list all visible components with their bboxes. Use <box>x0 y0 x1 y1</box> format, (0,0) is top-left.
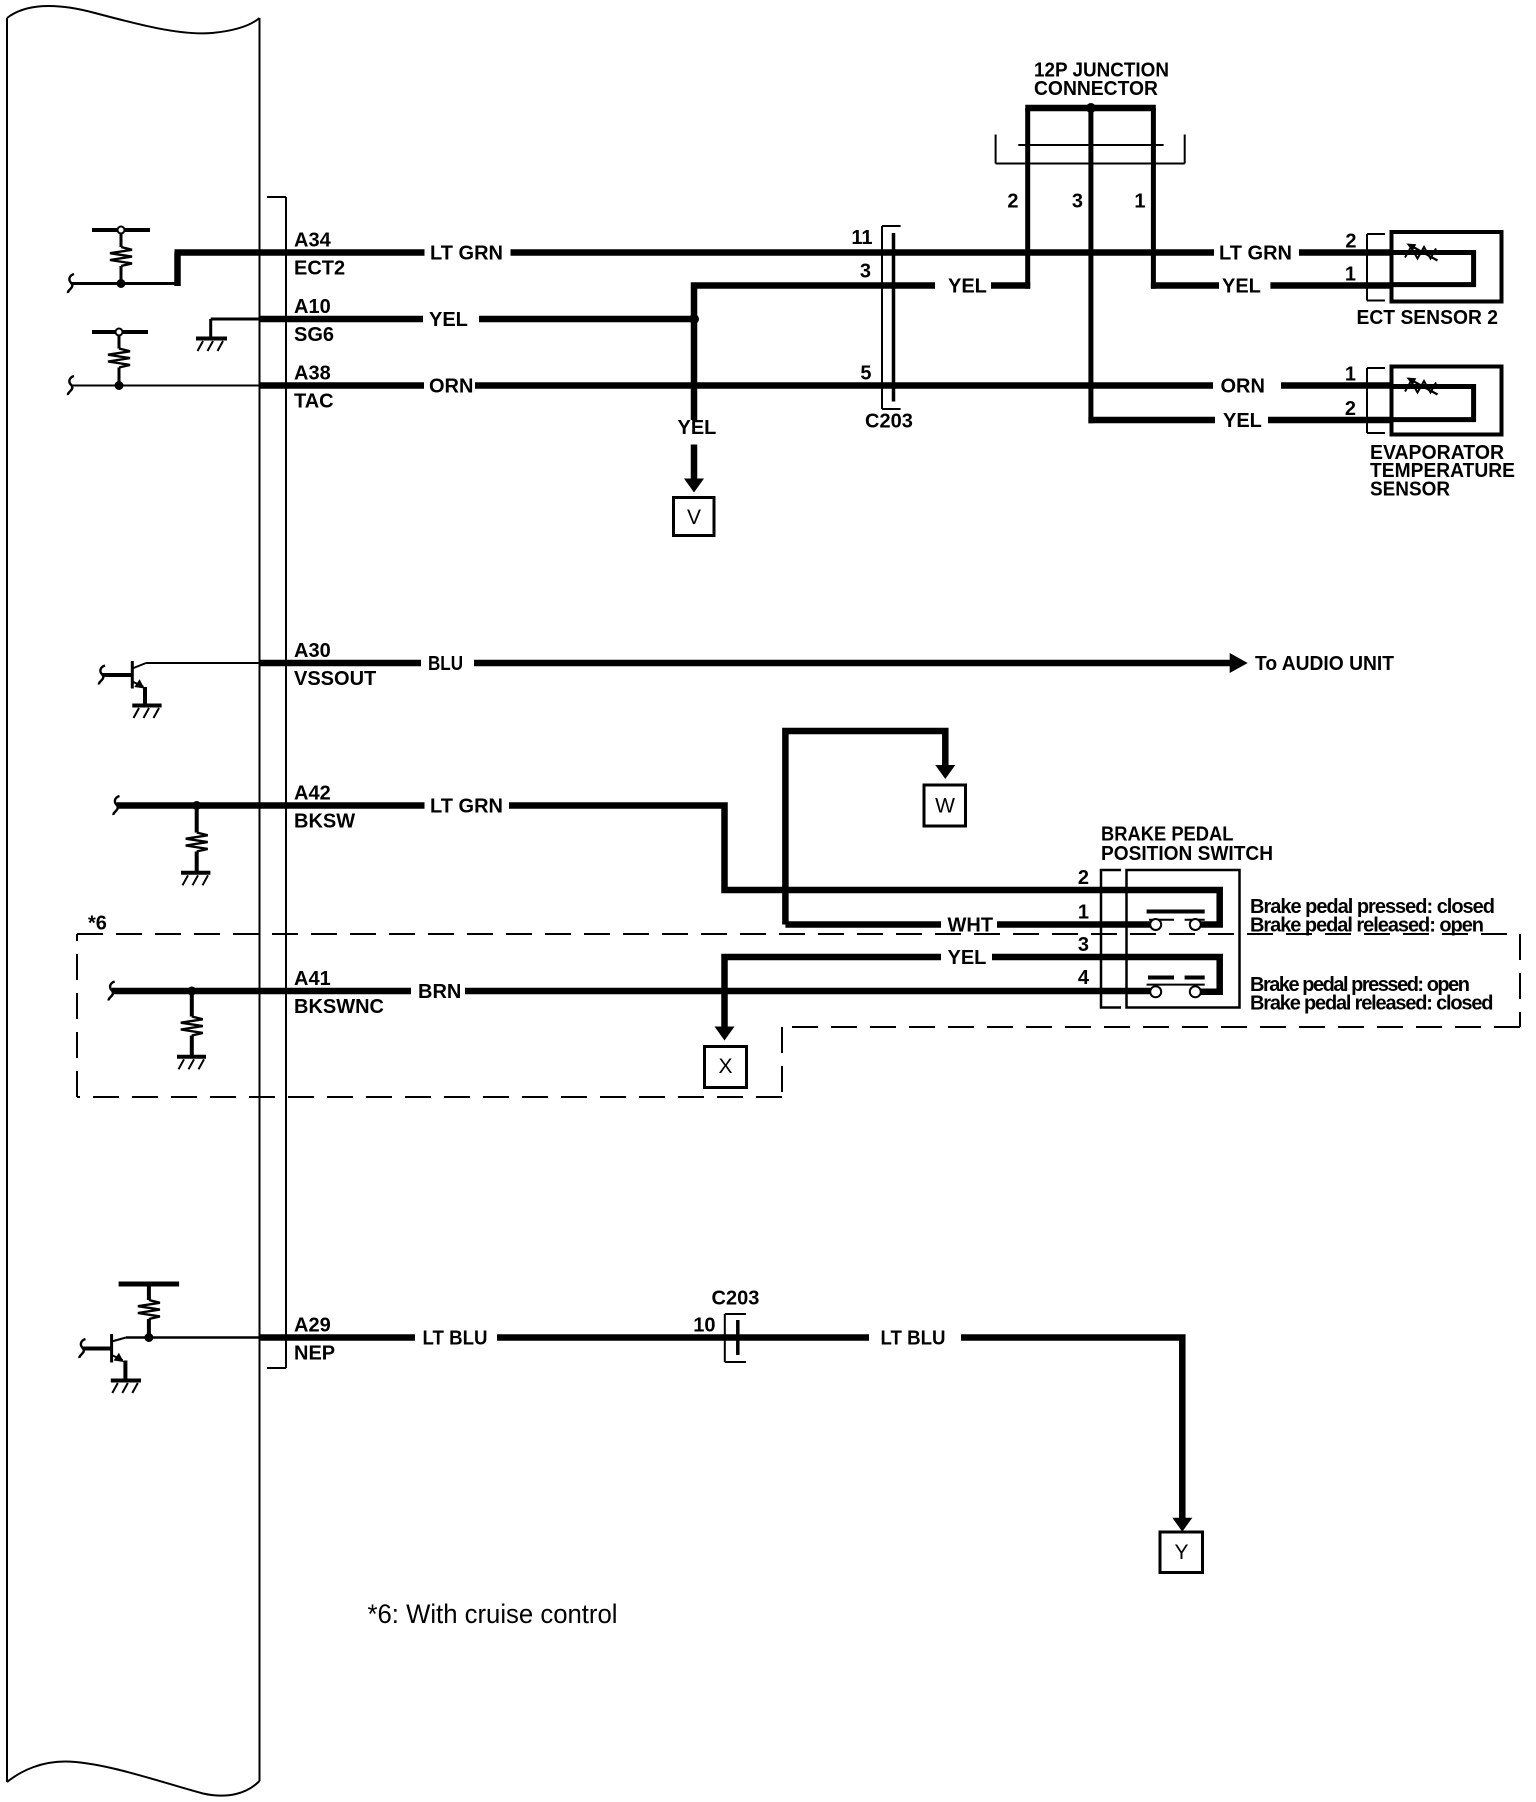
svg-text:10: 10 <box>693 1315 715 1337</box>
svg-text:3: 3 <box>860 261 871 283</box>
svg-text:BKSW: BKSW <box>294 811 355 833</box>
svg-text:BRN: BRN <box>418 981 461 1003</box>
svg-text:1: 1 <box>1078 902 1089 924</box>
svg-text:*6: With cruise control: *6: With cruise control <box>368 1599 618 1629</box>
svg-text:ORN: ORN <box>429 376 473 398</box>
svg-text:NEP: NEP <box>294 1343 335 1365</box>
svg-text:X: X <box>718 1055 732 1078</box>
svg-text:YEL: YEL <box>678 417 717 439</box>
svg-text:SENSOR: SENSOR <box>1370 479 1451 501</box>
svg-text:A34: A34 <box>294 230 332 252</box>
svg-text:1: 1 <box>1345 264 1356 286</box>
svg-text:A42: A42 <box>294 783 331 805</box>
svg-text:5: 5 <box>860 363 871 385</box>
svg-text:WHT: WHT <box>948 915 994 937</box>
svg-text:V: V <box>687 506 701 529</box>
svg-text:Brake pedal released: closed: Brake pedal released: closed <box>1250 993 1494 1015</box>
svg-text:A38: A38 <box>294 363 331 385</box>
svg-text:YEL: YEL <box>1222 276 1261 298</box>
svg-text:2: 2 <box>1345 231 1356 253</box>
svg-text:LT GRN: LT GRN <box>430 243 503 265</box>
svg-text:CONNECTOR: CONNECTOR <box>1034 78 1159 100</box>
svg-text:BLU: BLU <box>428 653 463 675</box>
svg-text:Brake pedal released: open: Brake pedal released: open <box>1250 915 1484 937</box>
svg-text:TAC: TAC <box>294 391 334 413</box>
svg-text:VSSOUT: VSSOUT <box>294 668 376 690</box>
svg-text:A30: A30 <box>294 640 331 662</box>
svg-text:3: 3 <box>1078 934 1089 956</box>
svg-text:4: 4 <box>1078 967 1090 989</box>
svg-text:SG6: SG6 <box>294 324 334 346</box>
svg-text:A10: A10 <box>294 296 331 318</box>
svg-text:C203: C203 <box>865 411 913 433</box>
svg-text:ORN: ORN <box>1221 376 1265 398</box>
svg-text:POSITION SWITCH: POSITION SWITCH <box>1101 843 1273 865</box>
svg-text:3: 3 <box>1072 191 1083 213</box>
svg-text:1: 1 <box>1345 364 1356 386</box>
svg-text:W: W <box>935 795 955 818</box>
svg-text:1: 1 <box>1134 191 1145 213</box>
svg-text:YEL: YEL <box>948 276 987 298</box>
svg-text:LT BLU: LT BLU <box>423 1328 488 1350</box>
svg-text:2: 2 <box>1078 867 1089 889</box>
svg-text:LT BLU: LT BLU <box>881 1328 946 1350</box>
svg-text:*6: *6 <box>88 913 107 935</box>
svg-text:LT GRN: LT GRN <box>1219 243 1292 265</box>
svg-text:Y: Y <box>1174 1541 1188 1564</box>
svg-text:11: 11 <box>851 227 872 249</box>
svg-text:YEL: YEL <box>948 947 987 969</box>
svg-text:2: 2 <box>1007 191 1018 213</box>
svg-text:A41: A41 <box>294 968 331 990</box>
svg-text:BKSWNC: BKSWNC <box>294 996 384 1018</box>
svg-text:ECT2: ECT2 <box>294 258 345 280</box>
svg-text:C203: C203 <box>712 1288 760 1310</box>
svg-text:ECT SENSOR 2: ECT SENSOR 2 <box>1357 307 1499 329</box>
svg-text:To AUDIO UNIT: To AUDIO UNIT <box>1255 653 1394 675</box>
svg-text:YEL: YEL <box>429 309 468 331</box>
svg-text:YEL: YEL <box>1223 410 1262 432</box>
svg-text:2: 2 <box>1345 398 1356 420</box>
svg-text:A29: A29 <box>294 1315 331 1337</box>
svg-text:LT GRN: LT GRN <box>430 796 503 818</box>
